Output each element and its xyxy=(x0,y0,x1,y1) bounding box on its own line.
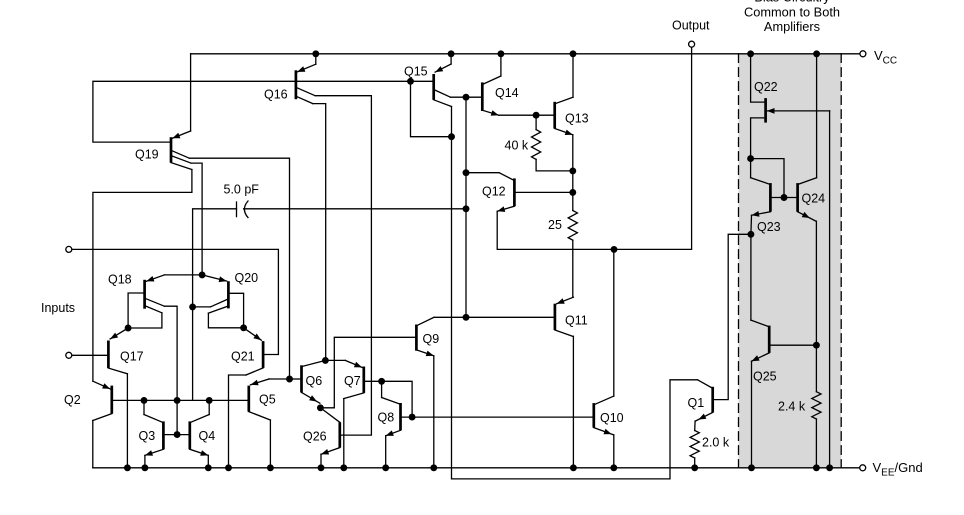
output terminal xyxy=(689,41,695,47)
svg-text:Q17: Q17 xyxy=(120,350,144,364)
wire: Q7 collector to rail xyxy=(343,399,345,468)
wire: 40k top lead xyxy=(535,115,537,129)
transistor Q22 xyxy=(766,98,830,123)
svg-text:Amplifiers: Amplifiers xyxy=(764,19,820,34)
wire: Q22 second collector to Q23 xyxy=(751,118,766,178)
transistor Q11 xyxy=(555,297,574,336)
svg-text:VEE/Gnd: VEE/Gnd xyxy=(873,460,923,479)
wire: Q12 emitter to output line xyxy=(497,47,691,249)
wire: Q1 base to Q23 emitter xyxy=(713,234,751,399)
wire: Q8 base to Q10 base xyxy=(401,416,594,418)
wire: non-inverting input to Q17 base xyxy=(73,354,109,356)
junction dots bottom rail xyxy=(124,464,833,471)
transistor Q16 xyxy=(296,64,316,103)
wire: Q7 emitter feed xyxy=(325,359,345,361)
wire: compensation cap left plate to Q2 base bus xyxy=(193,209,237,401)
wire: Q19 collector2 to diff-pair tail xyxy=(191,163,202,275)
svg-text:Q16: Q16 xyxy=(264,88,288,102)
wire: Q24 emitter to 2.4k xyxy=(815,221,817,392)
svg-text:Q22: Q22 xyxy=(754,80,778,94)
wire: compensation cap right plate to node xyxy=(244,208,466,210)
svg-text:VCC: VCC xyxy=(874,48,897,67)
transistor Q19 xyxy=(171,131,192,170)
wire: Q4 emitter to rail xyxy=(207,455,209,467)
VEE/Gnd rail xyxy=(93,467,860,469)
svg-text:Q3: Q3 xyxy=(139,429,156,443)
wire: Q18 collector2 to base node xyxy=(128,313,162,328)
svg-text:Q5: Q5 xyxy=(259,393,276,407)
wire: Q9 emitter to rail xyxy=(433,356,435,468)
wire: Q6 base lead xyxy=(290,378,302,380)
wire: Q19 collector3 to Q2 emitter xyxy=(93,170,192,382)
transistor Q13 xyxy=(555,97,573,135)
wire: Q13 emitter down to 25 ohm xyxy=(572,135,574,211)
transistor Q7 xyxy=(344,360,364,398)
wire: Q12 collector to node xyxy=(466,172,499,174)
svg-text:Q26: Q26 xyxy=(303,430,327,444)
svg-text:2.0 k: 2.0 k xyxy=(702,436,730,450)
svg-text:Q8: Q8 xyxy=(378,411,395,425)
wire: Q14 collector to rail xyxy=(500,54,502,76)
wire: Q26 emitter to rail xyxy=(320,454,322,468)
VEE terminal xyxy=(860,465,866,471)
svg-text:Q7: Q7 xyxy=(344,374,361,388)
wire: Q13 collector to rail xyxy=(572,54,574,97)
svg-text:Q24: Q24 xyxy=(802,192,826,206)
wire: Q3 collector riser xyxy=(143,400,145,414)
wire: Q20 collector2 to base node xyxy=(208,313,243,328)
transistor Q5 xyxy=(249,379,271,420)
svg-text:2.4 k: 2.4 k xyxy=(778,400,806,414)
svg-text:Common to Both: Common to Both xyxy=(744,4,840,19)
wire: 2.4k bottom lead to rail xyxy=(815,419,817,468)
svg-text:Output: Output xyxy=(672,19,710,33)
wire: Q12 base to Q13 emitter xyxy=(514,191,572,193)
transistor Q2 xyxy=(93,381,112,420)
wire: Q15 emitter from rail xyxy=(450,54,452,64)
caption bias circuitry xyxy=(744,0,840,34)
wire: Q20 collector1 to comp node xyxy=(193,306,211,308)
svg-text:Q2: Q2 xyxy=(64,393,81,407)
wire: Q15 collector2 long loop to Q1 collector xyxy=(452,107,698,479)
transistor Q3 xyxy=(144,415,163,456)
wire: Q23/Q24 base loop xyxy=(751,159,784,198)
wire: inverting input to Q21 base xyxy=(72,249,279,354)
capacitor 5.0 pF xyxy=(237,201,249,218)
wire: Q16 collector1 to Q26 base xyxy=(315,96,371,435)
svg-text:Inputs: Inputs xyxy=(41,301,75,315)
resistor 2.4 k xyxy=(812,392,821,419)
svg-text:Q12: Q12 xyxy=(482,185,506,199)
transistor Q26 xyxy=(320,408,339,455)
wire: 40k bottom lead to Q13 emitter xyxy=(536,159,573,171)
svg-text:Q6: Q6 xyxy=(306,374,323,388)
VCC terminal xyxy=(860,51,866,57)
bias region shading xyxy=(739,54,842,468)
transistor Q8 xyxy=(382,398,401,436)
wire: 25 ohm bottom to Q11 emitter xyxy=(572,240,574,297)
wire: Q9 collector to Q11 base xyxy=(434,316,555,318)
svg-text:Q25: Q25 xyxy=(753,370,777,384)
wire: Q18 collector1 to Q3/Q4 bases xyxy=(164,306,177,434)
wire: Q15 collector1 to Q14 base xyxy=(450,96,482,98)
transistor Q20 xyxy=(202,275,228,313)
svg-text:25: 25 xyxy=(548,218,562,232)
wire: bias bus drop to Q15 collector2 xyxy=(411,81,452,136)
svg-text:Q10: Q10 xyxy=(600,411,624,425)
svg-text:Q23: Q23 xyxy=(757,220,781,234)
wire: Q5 collector to rail xyxy=(269,420,271,468)
wire: Q8 emitter to rail xyxy=(385,436,387,468)
VCC rail xyxy=(191,53,860,55)
transistor Q25 xyxy=(751,320,769,361)
wire: Q23 emitter node to Q25 collector xyxy=(750,234,752,320)
wire: Q9 base to Q6 emitter node xyxy=(320,337,416,408)
wire: Q25 base lead xyxy=(769,344,816,346)
junction dots top rail xyxy=(312,50,820,57)
wire: Q10 collector riser xyxy=(613,249,615,396)
wire: Q3/Q4 base tie xyxy=(163,434,189,436)
svg-text:Q1: Q1 xyxy=(688,396,705,410)
input terminal 2 xyxy=(66,352,72,358)
svg-text:Q18: Q18 xyxy=(108,273,132,287)
wire: Q18 emitter link xyxy=(164,274,202,276)
svg-text:Q4: Q4 xyxy=(199,429,216,443)
wire: Q7/Q8 base-collector loop xyxy=(382,381,413,417)
wire: Q19 collector1 to Q5/Q6 node xyxy=(189,158,289,379)
svg-text:Q14: Q14 xyxy=(495,86,519,100)
bias region left dashed border xyxy=(738,54,740,468)
svg-text:40 k: 40 k xyxy=(505,139,529,153)
wire: Q10 emitter to rail xyxy=(613,435,615,468)
wire: Q22 collector stub to rail xyxy=(751,54,766,102)
svg-text:Q19: Q19 xyxy=(135,148,159,162)
bias region right dashed border xyxy=(840,54,842,468)
transistor Q18 xyxy=(145,275,165,313)
junction dots interior xyxy=(125,78,820,438)
resistor 40 k xyxy=(532,130,541,160)
wire: Q2 collector to rail xyxy=(92,421,94,468)
svg-text:Q15: Q15 xyxy=(404,65,428,79)
wire: Q11 collector to rail xyxy=(572,336,574,468)
transistor Q17 xyxy=(108,328,128,374)
transistor Q14 xyxy=(482,76,501,116)
transistor Q21 xyxy=(244,328,264,375)
svg-text:Q11: Q11 xyxy=(565,314,588,328)
input terminal 1 xyxy=(66,246,72,252)
wire: Q22 emitter to rail xyxy=(829,111,831,468)
transistor Q9 xyxy=(416,317,434,356)
wire: Q19 emitter feed from VCC rail xyxy=(190,54,192,131)
transistor Q4 xyxy=(190,415,209,456)
svg-text:5.0 pF: 5.0 pF xyxy=(224,183,260,197)
wire: Q1 emitter to 2.0k xyxy=(694,421,696,430)
transistor Q6 xyxy=(302,360,326,403)
resistor 25 xyxy=(568,211,577,241)
svg-text:Q13: Q13 xyxy=(565,112,589,126)
transistor Q15 xyxy=(434,64,452,107)
wire: Q21 collector to rail xyxy=(229,375,247,468)
wire: Q23 emitter drop xyxy=(750,215,753,234)
svg-text:Q21: Q21 xyxy=(231,350,255,364)
svg-text:Q9: Q9 xyxy=(423,332,440,346)
wire: Q23/Q24 base tie xyxy=(770,197,797,199)
wire: Q14 emitter to Q13 base xyxy=(499,114,555,116)
wire: Q16 emitter from rail xyxy=(315,54,317,64)
transistor Q24 xyxy=(798,178,817,222)
wire: 2.0k bottom lead to rail xyxy=(694,458,696,468)
wire: Q25 emitter to rail xyxy=(751,361,753,468)
transistor Q10 xyxy=(594,396,614,435)
wire: Q24 collector to rail xyxy=(816,54,818,178)
wire: Q18 base loop xyxy=(128,293,145,328)
wire: Q3 emitter to rail xyxy=(144,455,146,467)
wire: Q5 emitter link xyxy=(269,378,290,380)
svg-text:Q20: Q20 xyxy=(235,271,259,285)
transistor Q12 xyxy=(497,173,514,212)
resistor 2.0 k xyxy=(690,431,699,459)
transistor Q1 xyxy=(695,380,713,421)
wire: bias bus to Q19/Q16/Q15 bases xyxy=(93,81,434,142)
wire: Q8 collector riser xyxy=(381,381,383,397)
transistor Q23 xyxy=(751,178,771,217)
wire: Q4 collector riser xyxy=(208,400,210,414)
wire: Q15/Q14 node vertical xyxy=(465,97,467,317)
wire: Q20 base loop xyxy=(228,293,243,328)
wire: Q2/Q5 base bus xyxy=(112,399,249,401)
wire: Q17 collector to rail xyxy=(126,374,128,468)
wire: Q7 base lead xyxy=(364,380,382,382)
wire: Q16 collector2 to Q7 emitter node xyxy=(313,104,326,361)
